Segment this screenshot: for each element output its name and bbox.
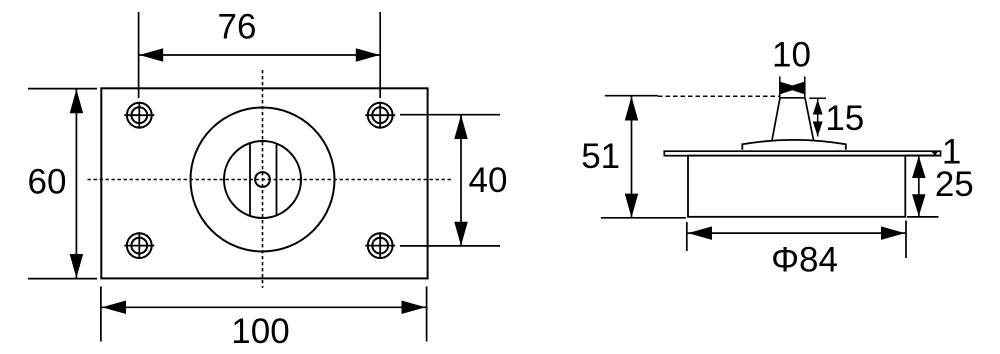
dim 25 tick top	[905, 154, 939, 156]
dim 60 arrow down	[70, 254, 84, 278]
dim 60 arrow up	[70, 89, 84, 113]
dim 25 line	[918, 156, 920, 216]
dim 25 arrow up	[912, 156, 926, 178]
hole top-left	[124, 102, 154, 129]
dim 76 extension line right	[379, 12, 381, 98]
svg-text:100: 100	[231, 312, 289, 351]
svg-text:Φ84: Φ84	[771, 240, 838, 279]
bearing outer circle	[191, 108, 335, 252]
hole bottom-right	[365, 232, 395, 259]
dim 76 line	[139, 54, 380, 56]
dim 40 line	[460, 115, 462, 246]
dim 84 extension line right	[905, 221, 907, 259]
svg-text:51: 51	[581, 137, 620, 176]
post right side	[805, 98, 814, 140]
dim 60 tick top	[28, 88, 97, 90]
dim 76 arrow left	[139, 48, 163, 61]
dim 76 extension line left	[138, 12, 140, 98]
dim 40 arrow up	[454, 115, 468, 139]
dim 10 arrow right (inward)	[792, 82, 804, 95]
pointer dashed line	[658, 95, 779, 97]
bearing middle circle	[224, 141, 301, 218]
center pin circle	[255, 172, 270, 187]
centerline vertical	[262, 70, 264, 288]
svg-text:25: 25	[935, 165, 974, 204]
dim 15 tick top	[809, 97, 826, 99]
dim 51 arrow up	[625, 97, 639, 121]
dim 76 arrow right	[356, 48, 380, 61]
dim 100 line	[102, 306, 427, 308]
plate outline (top view)	[101, 88, 427, 278]
slot line left	[249, 143, 251, 216]
dim 10 extension line left	[779, 76, 781, 97]
dim 15 line	[817, 99, 819, 137]
dim 10 extension line right	[804, 76, 806, 97]
dim 25 tick bottom	[907, 216, 939, 218]
dim 60 tick bottom	[28, 278, 97, 280]
post top edge	[780, 97, 805, 99]
svg-text:60: 60	[28, 163, 67, 202]
svg-text:76: 76	[218, 8, 257, 47]
dim 84 arrow left	[688, 226, 712, 240]
body (side view)	[688, 156, 905, 217]
dim 15 arrow down	[813, 122, 823, 137]
dim 1 arrow	[931, 151, 938, 155]
hole bottom-left	[124, 232, 154, 259]
dim 100 tick left	[100, 286, 102, 341]
pedestal skirt	[742, 140, 846, 150]
dim 10 arrow left (inward)	[780, 82, 792, 95]
dim 40 extension line bottom	[400, 245, 500, 247]
centerline horizontal	[88, 179, 453, 181]
dim 51 tick top	[605, 95, 658, 97]
dim 40 arrow down	[454, 222, 468, 246]
dim 40 extension line top	[400, 114, 500, 116]
dim 100 arrow right	[402, 301, 426, 315]
dim 25 arrow down	[912, 194, 926, 216]
dim 84 arrow right	[881, 226, 905, 240]
flange plate (side view)	[664, 151, 940, 156]
hole top-right	[365, 102, 395, 129]
dim 51 tick bottom	[601, 217, 686, 219]
dim 15 arrow up	[813, 100, 823, 115]
svg-text:40: 40	[469, 161, 508, 200]
dim 60 line	[75, 89, 77, 278]
dim 84 extension line left	[686, 222, 688, 251]
svg-text:10: 10	[772, 36, 811, 75]
dim 51 arrow down	[625, 194, 639, 218]
dim 84 line	[688, 232, 906, 234]
dim 100 arrow left	[102, 301, 126, 315]
svg-text:15: 15	[825, 99, 864, 138]
post left side	[772, 98, 780, 141]
dim 100 tick right	[426, 286, 428, 341]
slot line right	[276, 144, 278, 216]
dim 51 line	[631, 97, 633, 218]
